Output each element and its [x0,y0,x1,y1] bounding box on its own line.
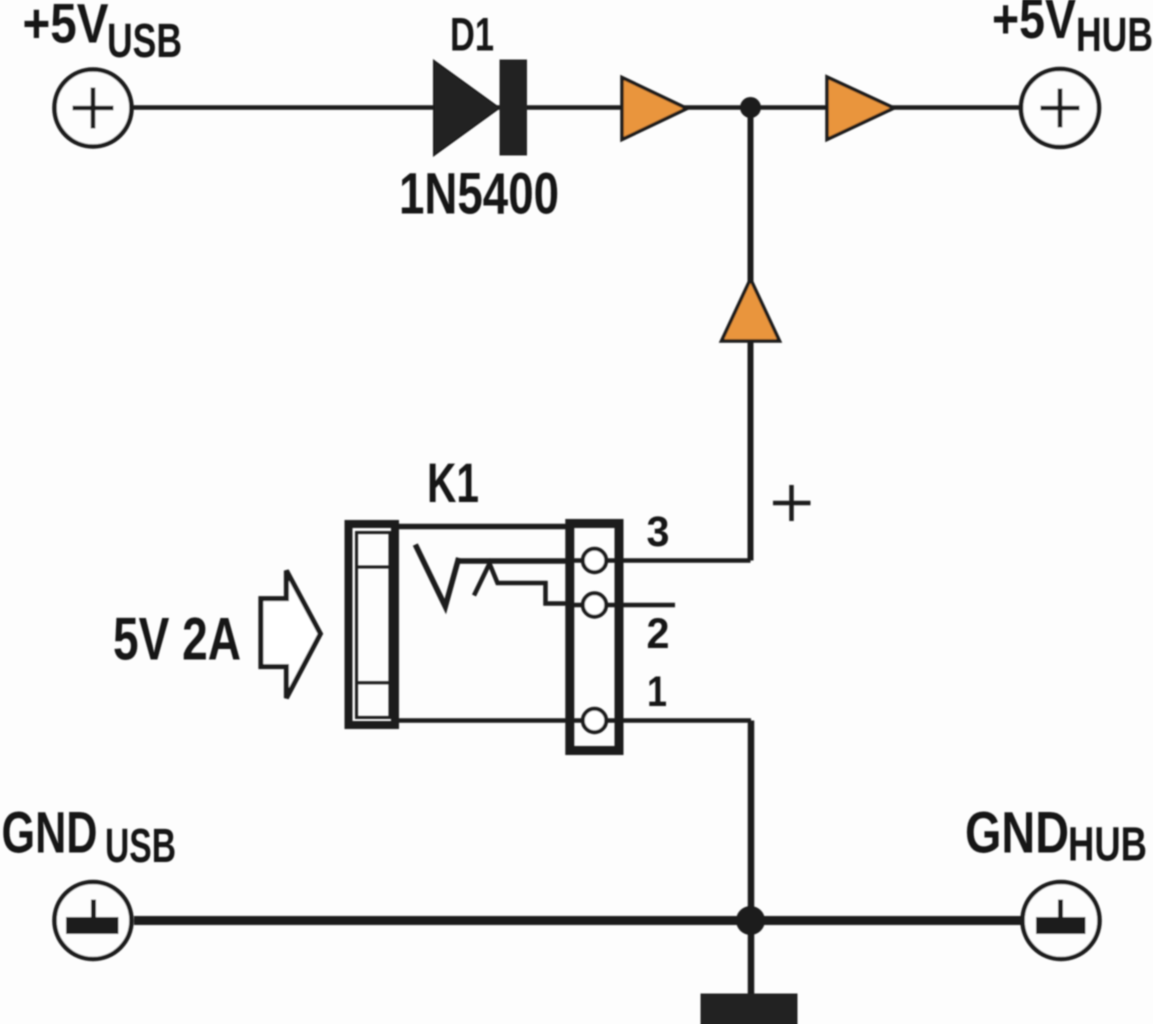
svg-text:D1: D1 [450,7,494,60]
svg-text:+5V: +5V [992,0,1076,50]
svg-text:HUB: HUB [1076,9,1153,62]
svg-text:K1: K1 [427,451,479,514]
svg-text:+5V: +5V [23,0,109,55]
svg-text:USB: USB [105,820,176,873]
svg-text:GND: GND [2,801,98,866]
svg-text:5V 2A: 5V 2A [113,606,241,673]
svg-text:1N5400: 1N5400 [399,162,559,227]
svg-text:3: 3 [647,508,670,556]
svg-text:USB: USB [107,15,182,68]
svg-text:1: 1 [647,668,667,716]
svg-text:2: 2 [647,610,670,658]
svg-text:HUB: HUB [1068,819,1147,872]
svg-text:GND: GND [965,801,1069,866]
